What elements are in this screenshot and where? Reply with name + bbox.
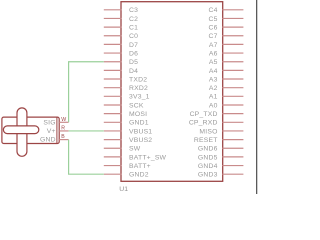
svg-text:D7: D7 bbox=[129, 42, 138, 49]
pin TXD2 (left row 9) bbox=[104, 76, 147, 83]
pin C3 (left row 1) bbox=[104, 7, 138, 14]
pin C5 (right row 2) bbox=[209, 16, 244, 23]
svg-text:A3: A3 bbox=[209, 76, 218, 83]
pin MOSI (left row 13) bbox=[104, 111, 147, 118]
svg-text:BATT+_SW: BATT+_SW bbox=[129, 154, 167, 161]
pin D5 (left row 7) bbox=[104, 59, 138, 66]
pin C4 (right row 1) bbox=[209, 7, 244, 14]
svg-text:GND5: GND5 bbox=[198, 154, 218, 161]
svg-text:A4: A4 bbox=[209, 68, 218, 75]
pin C1 (left row 3) bbox=[104, 25, 138, 32]
svg-text:MOSI: MOSI bbox=[129, 111, 147, 118]
wire net GND: connector B pin to GND2 bbox=[69, 140, 104, 175]
svg-text:BATT+: BATT+ bbox=[129, 163, 151, 170]
pin GND5 (right row 18) bbox=[198, 154, 243, 161]
svg-text:B: B bbox=[61, 134, 65, 140]
pin BATT+_SW (left row 18) bbox=[104, 154, 167, 161]
svg-text:U1: U1 bbox=[119, 186, 128, 193]
pin VBUS2 (left row 16) bbox=[104, 137, 153, 144]
svg-text:A6: A6 bbox=[209, 50, 218, 57]
svg-text:GND3: GND3 bbox=[198, 172, 218, 179]
pin RXD2 (left row 10) bbox=[104, 85, 148, 92]
connector keying bar (vertical stadium) bbox=[17, 108, 27, 156]
svg-text:D4: D4 bbox=[129, 68, 138, 75]
pin A7 (right row 5) bbox=[209, 42, 244, 49]
connector body bbox=[2, 117, 59, 143]
pin A5 (right row 7) bbox=[209, 59, 244, 66]
svg-text:CP_RXD: CP_RXD bbox=[189, 120, 218, 127]
svg-text:V+: V+ bbox=[47, 128, 56, 135]
svg-text:C5: C5 bbox=[209, 16, 218, 23]
svg-text:R: R bbox=[61, 126, 65, 132]
svg-text:C6: C6 bbox=[209, 25, 218, 32]
pin C2 (left row 2) bbox=[104, 16, 138, 23]
pin A0 (right row 12) bbox=[209, 102, 244, 109]
pin C7 (right row 4) bbox=[209, 33, 244, 40]
svg-text:A5: A5 bbox=[209, 59, 218, 66]
svg-text:CP_TXD: CP_TXD bbox=[190, 111, 218, 118]
pin GND3 (right row 20) bbox=[198, 172, 243, 179]
connector slot (horizontal stadium) bbox=[3, 126, 38, 134]
svg-text:TXD2: TXD2 bbox=[129, 76, 147, 83]
svg-text:D5: D5 bbox=[129, 59, 138, 66]
pin C6 (right row 3) bbox=[209, 25, 244, 32]
pin A1 (right row 11) bbox=[209, 94, 244, 101]
pin A4 (right row 8) bbox=[209, 68, 244, 75]
pin C0 (left row 4) bbox=[104, 33, 138, 40]
connector pin GND stub bbox=[59, 139, 68, 141]
pin 3V3_1 (left row 11) bbox=[104, 94, 150, 101]
connector pin V+ stub bbox=[59, 130, 68, 132]
connector body divider line bbox=[56, 117, 58, 143]
pin VBUS1 (left row 15) bbox=[104, 128, 153, 135]
pin CP_RXD (right row 14) bbox=[189, 120, 244, 127]
pin SW (left row 17) bbox=[104, 146, 141, 153]
svg-text:VBUS1: VBUS1 bbox=[129, 128, 152, 135]
svg-text:A1: A1 bbox=[209, 94, 218, 101]
pin GND1 (left row 14) bbox=[104, 120, 149, 127]
svg-text:A0: A0 bbox=[209, 102, 218, 109]
pin MISO (right row 15) bbox=[199, 128, 243, 135]
svg-text:GND2: GND2 bbox=[129, 172, 149, 179]
pin D7 (left row 5) bbox=[104, 42, 138, 49]
svg-text:W: W bbox=[61, 117, 66, 123]
pin A3 (right row 9) bbox=[209, 76, 244, 83]
svg-text:A2: A2 bbox=[209, 85, 218, 92]
pin GND4 (right row 19) bbox=[198, 163, 243, 170]
wire net V+: connector R pin to VBUS1 bbox=[69, 130, 104, 132]
pin GND6 (right row 17) bbox=[198, 146, 243, 153]
connector pin SIG stub bbox=[59, 121, 68, 123]
pin A6 (right row 6) bbox=[209, 50, 244, 57]
pin CP_TXD (right row 13) bbox=[190, 111, 244, 118]
pin BATT+ (left row 19) bbox=[104, 163, 151, 170]
wire net SIG: connector W pin to D5 bbox=[69, 62, 104, 123]
pin SCK (left row 12) bbox=[104, 102, 144, 109]
svg-text:C4: C4 bbox=[209, 7, 218, 14]
svg-text:D6: D6 bbox=[129, 50, 138, 57]
svg-text:GND1: GND1 bbox=[129, 120, 149, 127]
svg-text:RESET: RESET bbox=[194, 137, 218, 144]
pin RESET (right row 16) bbox=[194, 137, 243, 144]
svg-text:C2: C2 bbox=[129, 16, 138, 23]
pin D6 (left row 6) bbox=[104, 50, 138, 57]
svg-text:GND6: GND6 bbox=[198, 146, 218, 153]
svg-text:C0: C0 bbox=[129, 33, 138, 40]
svg-text:3V3_1: 3V3_1 bbox=[129, 94, 150, 101]
svg-text:A7: A7 bbox=[209, 42, 218, 49]
svg-text:VBUS2: VBUS2 bbox=[129, 137, 152, 144]
pin A2 (right row 10) bbox=[209, 85, 244, 92]
pin D4 (left row 8) bbox=[104, 68, 138, 75]
svg-text:C3: C3 bbox=[129, 7, 138, 14]
svg-text:SW: SW bbox=[129, 146, 141, 153]
svg-text:SIG: SIG bbox=[43, 119, 55, 126]
IC U1 body rectangle bbox=[121, 2, 223, 182]
svg-text:GND4: GND4 bbox=[198, 163, 218, 170]
svg-text:RXD2: RXD2 bbox=[129, 85, 148, 92]
svg-text:MISO: MISO bbox=[199, 128, 217, 135]
svg-text:GND: GND bbox=[40, 137, 56, 144]
schematic frame border (right edge) bbox=[256, 0, 258, 194]
svg-text:SCK: SCK bbox=[129, 102, 144, 109]
svg-text:C7: C7 bbox=[209, 33, 218, 40]
svg-text:C1: C1 bbox=[129, 25, 138, 32]
pin GND2 (left row 20) bbox=[104, 172, 149, 179]
